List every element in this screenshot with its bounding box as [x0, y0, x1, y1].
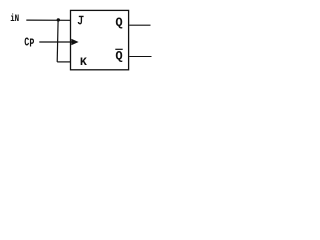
wire Q output	[129, 24, 150, 26]
wire iN to J input	[26, 19, 70, 21]
overline of Q-bar	[115, 48, 122, 50]
svg-text:iN: iN	[10, 13, 19, 25]
clock arrowhead into flip-flop	[71, 39, 78, 46]
svg-text:K: K	[80, 57, 87, 69]
wire horizontal into K input	[57, 61, 70, 63]
svg-text:Q: Q	[115, 16, 123, 30]
svg-text:Q: Q	[115, 49, 123, 63]
background	[0, 0, 163, 83]
svg-text:P: P	[29, 37, 34, 51]
wire vertical branch from junction down toward K	[56, 20, 59, 62]
wire CP clock line	[39, 41, 72, 43]
junction dot on iN net	[57, 18, 60, 21]
pin label J	[78, 16, 83, 24]
wire Q-bar output	[129, 56, 151, 58]
flip-flop U1 body	[71, 10, 129, 69]
